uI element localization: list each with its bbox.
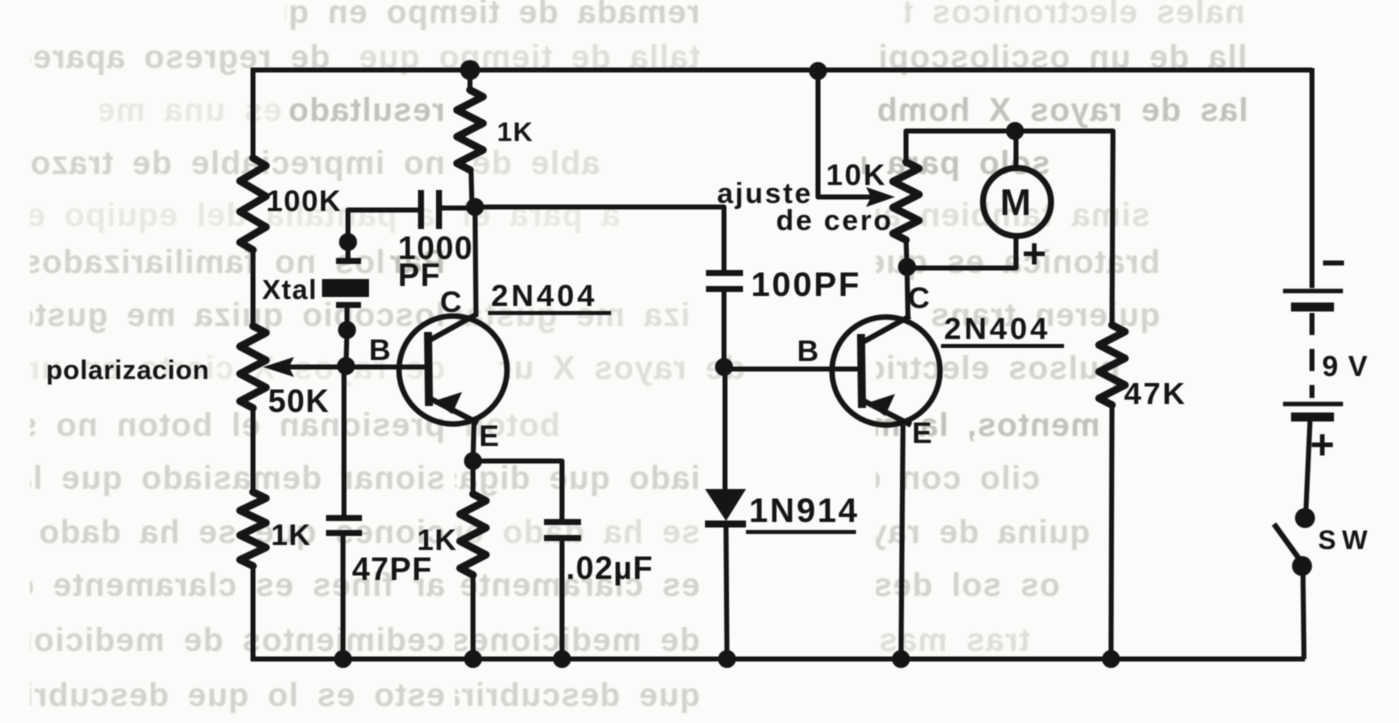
svg-text:1K: 1K [497,117,534,147]
resistor R 1K emitter zigzag [460,494,486,575]
capacitor C 100PF top plate [706,270,743,276]
node bottom rail / diode [718,650,736,668]
resistor R 50K zigzag (potentiometer body) [240,326,266,408]
wire 47K top lead [1112,131,1113,327]
svg-text:E: E [479,420,500,453]
wire Q1 emitter to 1K resistor [471,461,476,496]
wire from 100K label corner to 1000PF [348,210,420,240]
node junction top rail / 10K branch [809,62,827,80]
node bottom rail / 47PF [334,650,352,668]
node Xtal top lead dot [339,233,357,251]
node Xtal bottom dot [338,321,356,339]
label 1N914 underline [746,530,856,534]
capacitor C .02uF bottom plate [544,535,581,541]
wire left rail between 100K and 50K [251,248,256,328]
wire Q2 emitter lead to bottom rail [901,425,903,659]
wire Xtal bottom stub [345,308,350,330]
svg-text:.02µF: .02µF [566,550,653,586]
capacitor C 1000PF right plate [436,190,442,229]
wire diode cathode to bottom rail [726,527,727,659]
node bottom rail / 47K [1102,650,1120,668]
node junction top rail / 1K [460,60,480,80]
svg-text:C: C [440,286,463,319]
diode D 1N914 triangle [705,489,746,521]
svg-text:C: C [908,282,931,315]
wire collector node to 100PF corner [475,207,724,272]
switch SW bottom contact [1292,556,1312,576]
svg-text:100K: 100K [266,185,342,218]
svg-text:100PF: 100PF [751,266,861,304]
wire battery dashed middle [1310,313,1315,398]
node junction meter top [1006,122,1024,140]
crystal Xtal top plate [336,258,361,264]
wire left rail lower segment [251,564,256,661]
capacitor C 1000PF left plate [418,190,424,229]
wire 10K top lead [906,131,1113,164]
label - (battery negative) [1323,261,1344,266]
wire .02uF to bottom rail [560,540,565,659]
battery B1 cell1 long plate [1283,289,1343,294]
wire Q2 collector lead [907,267,908,318]
svg-text:E: E [912,417,933,450]
wire Xtal to base wire [346,330,347,366]
node bottom rail / 1K emitter [464,650,482,668]
node junction 10K/meter/Q2 collector [898,258,916,276]
node Q1 emitter junction [464,452,482,470]
svg-text:PF: PF [398,257,441,293]
svg-text:polarizacion: polarizacion [46,355,210,385]
wire 100PF to base node Q2 [722,291,727,367]
svg-text:B: B [369,334,392,367]
wire meter bottom lead [907,236,1016,268]
capacitor C 47PF top plate [326,515,362,521]
transistor Q2 emitter stroke [864,401,911,425]
resistor R 47K zigzag [1099,325,1125,405]
wire base node down to 47PF [342,366,347,516]
capacitor C .02uF top plate [544,519,581,525]
diode D 1N914 cathode bar [705,521,746,528]
battery B1 cell1 short plate [1291,303,1334,312]
node junction base/Xtal/47PF [337,357,355,375]
switch SW top contact [1295,508,1315,528]
svg-text:2N404: 2N404 [491,278,597,313]
svg-text:2N404: 2N404 [944,311,1050,346]
arrow 50K wiper arrowhead [263,357,294,377]
svg-text:10K: 10K [826,159,887,192]
svg-text:M: M [1000,182,1032,223]
wire node to diode anode [723,367,728,489]
svg-text:+: + [1310,421,1336,468]
wire Q2 base wire [724,367,862,372]
svg-text:1N914: 1N914 [749,492,859,530]
transistor Q1 collector stroke [430,314,477,340]
capacitor C 100PF bottom plate [706,286,743,292]
wire 1000PF right plate to node [440,206,472,211]
svg-text:9 V: 9 V [1322,351,1369,383]
transistor Q1 emitter stroke [431,399,478,423]
capacitor C 47PF bottom plate [326,530,362,536]
battery B1 cell2 short plate [1291,413,1334,422]
wire 1K top lead [468,70,473,92]
label 2N404 underline (Q2) [941,344,1064,348]
wire battery top lead [1310,68,1315,288]
wire 47PF to bottom rail [341,535,346,659]
svg-text:Xtal: Xtal [262,274,317,305]
transistor Q2 collector stroke [863,316,910,342]
node junction 100PF/diode/Q2 base [715,358,733,376]
wire meter top lead [1014,131,1019,169]
transistor Q1 base bar [428,332,429,406]
node bottom rail / Q2 emitter [892,650,910,668]
switch SW lever [1274,524,1300,560]
wire 1K emitter bottom lead [471,573,476,659]
node bottom rail / .02uF [553,650,571,668]
wire left rail between 50K and 1K [251,406,256,494]
wire 10K bottom lead [906,238,907,267]
wire switch to bottom rail [1303,574,1304,659]
transistor Q2 base bar [861,334,862,408]
transistor Q1 emitter arrow [434,392,462,414]
wire top rail [251,68,1312,73]
svg-text:+: + [1022,230,1048,277]
wire battery bottom lead [1306,421,1310,509]
transistor Q2 emitter arrow [867,394,895,416]
svg-text:1K: 1K [271,519,311,552]
battery B1 cell2 long plate [1283,402,1343,407]
svg-text:50K: 50K [268,383,330,419]
crystal Xtal body [322,279,369,297]
wire Q1 emitter node to .02uF [473,461,562,520]
wire Q1 base wire [284,365,429,370]
crystal Xtal bottom plate [336,302,361,308]
wire 10K branch down [818,71,870,197]
wire left rail upper segment [251,68,256,160]
transistor Q2 circle [832,317,940,425]
svg-text:de cero: de cero [776,205,893,237]
label 2N404 underline (Q1) [488,311,611,315]
resistor R 1K lower-left zigzag [240,492,266,566]
wire Xtal top stub [346,242,351,258]
bleed-through mirrored newsprint text (back of page) [285,0,700,35]
meter M circle [983,168,1051,236]
wire 1K bottom lead to collector node [471,168,472,208]
node junction collector/1000PF/100PF wire [466,198,484,216]
wire Q1 emitter lead [473,423,474,461]
wire bottom rail [251,657,1305,662]
transistor Q1 circle [399,316,507,424]
resistor R 10K zigzag (potentiometer body) [893,162,919,240]
svg-text:B: B [797,335,820,368]
wire 47K bottom lead [1111,403,1112,659]
svg-text:47K: 47K [1124,376,1187,411]
svg-text:47PF: 47PF [352,551,432,587]
wire Q1 collector lead [475,207,476,316]
resistor R 100K zigzag [240,158,266,250]
resistor R1 1K top zigzag [457,90,483,170]
arrow 10K wiper arrowhead [866,187,895,207]
svg-text:SW: SW [1318,525,1374,555]
